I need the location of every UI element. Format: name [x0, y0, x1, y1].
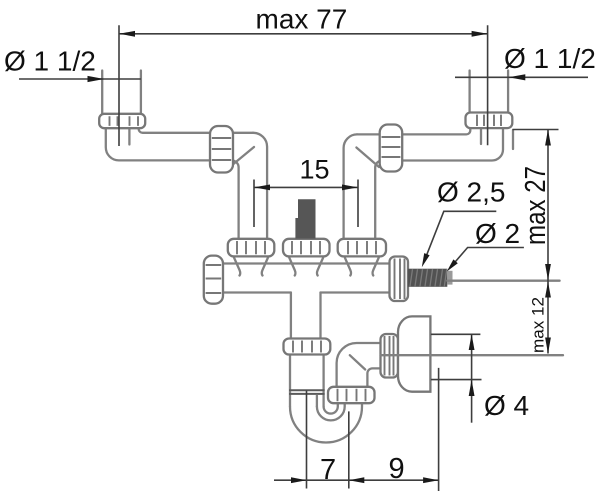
trap inner wall line [316, 396, 318, 407]
dimension max 77 [119, 25, 488, 146]
manifold top-center nut [283, 239, 330, 257]
left inlet pipe [102, 71, 141, 115]
wall outlet centerline [397, 354, 563, 356]
right inlet elbow down to horizontal run [344, 128, 503, 239]
right elbow seam [356, 148, 379, 168]
funnel under left branch nut [234, 258, 268, 276]
manifold left end cap nut [204, 256, 223, 304]
center cleaning plug (dark) [295, 199, 315, 238]
svg-text:Ø 1 1/2: Ø 1 1/2 [504, 43, 596, 74]
dimension 15 [254, 180, 358, 228]
left inlet elbow down to horizontal run [106, 128, 267, 239]
left middle elbow nut [210, 126, 233, 173]
leader Ø 1 1/2 left [19, 76, 141, 82]
right middle elbow nut [380, 125, 403, 172]
bottom dimensions 7 and 9 [274, 368, 439, 491]
flange centerline over nut and bell [381, 354, 431, 356]
wall outlet big nut [381, 334, 399, 378]
outlet stub tip [447, 271, 452, 285]
trap inner U bends [317, 403, 345, 420]
right tailpiece stub below nut [480, 129, 482, 145]
threaded outlet stub (dark) [408, 269, 447, 287]
trap outer U bend [290, 403, 362, 442]
trap outlet elbow up to horizontal [337, 343, 381, 387]
svg-text:Ø 2: Ø 2 [475, 218, 520, 249]
manifold right outlet nut [390, 257, 409, 302]
svg-text:Ø 4: Ø 4 [484, 390, 529, 421]
max 27 / max 12 vertical dimension [447, 130, 559, 354]
svg-text:Ø 2,5: Ø 2,5 [437, 177, 505, 208]
svg-text:max 27: max 27 [520, 166, 552, 245]
trap tee nut [284, 339, 331, 355]
leader Ø 1 1/2 right [455, 74, 588, 80]
small tick right of right inlet nut [512, 130, 514, 149]
manifold top-left nut [228, 239, 274, 257]
leader Ø 2 [447, 248, 524, 272]
funnel under center nut [289, 258, 323, 276]
svg-text:7: 7 [320, 454, 336, 486]
manifold body [223, 264, 390, 339]
Ø 4 dimension [431, 334, 482, 422]
manifold top-right nut [338, 239, 386, 257]
trap union joint lines [289, 390, 325, 394]
right inlet pipe [470, 71, 509, 113]
left tailpiece stub below nut [128, 129, 130, 145]
funnel under right branch nut [345, 258, 379, 276]
svg-text:max 77: max 77 [256, 4, 348, 35]
trap down pipe [290, 355, 324, 407]
right inlet compression nut [466, 113, 513, 129]
trap outlet nut [328, 387, 375, 403]
svg-text:max 12: max 12 [529, 297, 548, 353]
svg-text:Ø 1 1/2: Ø 1 1/2 [4, 46, 96, 77]
wall flange bell [398, 316, 430, 391]
leader Ø 2,5 [422, 211, 497, 267]
trap outlet elbow seam [350, 355, 365, 369]
left elbow seam [231, 147, 254, 166]
svg-text:9: 9 [389, 453, 405, 485]
svg-text:15: 15 [300, 155, 330, 185]
left inlet compression nut [99, 114, 145, 128]
